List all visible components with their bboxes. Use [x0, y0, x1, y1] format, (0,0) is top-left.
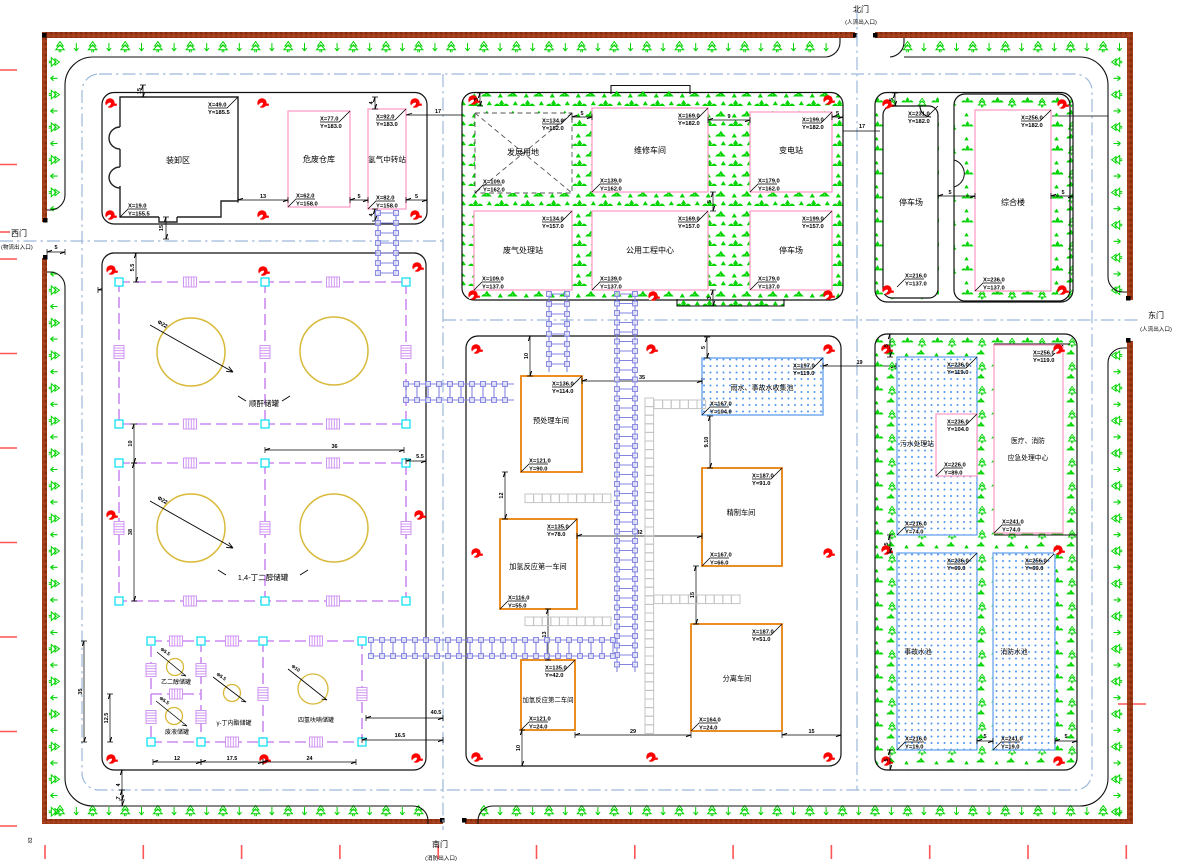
svg-text:36: 36	[331, 444, 337, 450]
semicircle notch on green band	[954, 160, 964, 187]
svg-text:Y=114.0: Y=114.0	[552, 389, 573, 395]
coordinate leader X=135.0/Y=78.0 for hydrogenation 1	[547, 519, 577, 538]
coordinate leader X=236.0/Y=137.0 for office building	[975, 278, 1005, 292]
svg-text:X=197.0: X=197.0	[793, 364, 815, 370]
parking lot 停车场 (block B)	[750, 211, 832, 290]
svg-text:γ-丁内酯储罐: γ-丁内酯储罐	[217, 719, 252, 727]
svg-text:10: 10	[516, 745, 522, 751]
svg-text:停车场: 停车场	[899, 197, 923, 207]
svg-text:13: 13	[260, 194, 266, 200]
fire hydrants block B	[468, 95, 480, 105]
coordinate leader X=179.0/Y=162.0 for substation	[750, 179, 780, 193]
svg-text:加氢反应第二车间: 加氢反应第二车间	[522, 695, 573, 704]
building: pretreatment workshop 预处理车间	[521, 376, 582, 472]
svg-text:5: 5	[707, 200, 713, 203]
perimeter greening: left column (trees rotated, arrows)	[49, 58, 60, 816]
north-south road centreline x=857 (from north gate)	[856, 10, 858, 790]
svg-text:Y=24.0: Y=24.0	[699, 725, 718, 731]
coordinate leader X=241.0/Y=19.0 for fire pool	[993, 737, 1023, 751]
coordinate leader X=92.0/Y=183.0 for hydrogen transfer station	[376, 109, 406, 128]
svg-text:83: 83	[28, 837, 34, 843]
svg-text:Y=74.0: Y=74.0	[905, 529, 924, 535]
svg-text:15: 15	[159, 225, 165, 231]
svg-text:Y=137.0: Y=137.0	[482, 284, 504, 290]
svg-text:Y=66.0: Y=66.0	[710, 560, 729, 566]
svg-text:Y=69.0: Y=69.0	[947, 566, 966, 572]
svg-text:雨水、事故水收集池: 雨水、事故水收集池	[731, 383, 794, 392]
svg-text:5: 5	[357, 194, 360, 200]
green band outline around office building	[954, 94, 1070, 301]
coordinate leader X=134.0/Y=157.0 for waste gas treatment	[542, 211, 572, 230]
svg-text:10: 10	[524, 353, 530, 359]
svg-text:X=121.0: X=121.0	[529, 459, 551, 465]
medical / fire emergency centre 医疗、消防应急处理中心	[994, 345, 1063, 533]
svg-text:3: 3	[474, 98, 480, 101]
svg-text:X=241.0: X=241.0	[1002, 520, 1024, 526]
boundary wall, top (west of north gate)	[42, 32, 855, 38]
coordinate leader X=236.0/Y=104.0 for sewage inner	[947, 414, 977, 433]
bund 1 tanks	[157, 318, 225, 386]
svg-text:分离车间: 分离车间	[723, 674, 752, 683]
svg-text:Y=183.0: Y=183.0	[376, 122, 398, 128]
svg-text:X=187.0: X=187.0	[752, 630, 774, 636]
svg-text:Y=78.0: Y=78.0	[547, 532, 566, 538]
small tank arrows	[156, 652, 327, 726]
svg-text:Y=137.0: Y=137.0	[905, 281, 927, 287]
west road centreline y=241 (from west gate)	[0, 240, 443, 242]
svg-text:17.5: 17.5	[227, 756, 238, 762]
svg-text:Y=119.0: Y=119.0	[1033, 358, 1054, 364]
svg-text:乙二醇储罐: 乙二醇储罐	[161, 678, 191, 686]
small tanks	[167, 659, 184, 676]
svg-text:Y=51.0: Y=51.0	[752, 637, 771, 643]
boundary wall, right (north of east gate)	[1127, 32, 1133, 300]
svg-text:北门: 北门	[853, 4, 869, 14]
svg-text:17: 17	[435, 109, 441, 115]
dimensions block A	[238, 197, 288, 203]
svg-text:Y=74.0: Y=74.0	[1002, 527, 1021, 533]
svg-text:Y=185.5: Y=185.5	[208, 110, 231, 116]
svg-text:Y=104.0: Y=104.0	[710, 409, 732, 415]
building: waste gas treatment 废气处理站	[474, 211, 572, 290]
svg-text:(人流出入口): (人流出入口)	[1140, 325, 1172, 333]
svg-text:Y=19.0: Y=19.0	[1001, 744, 1020, 750]
east road centreline y=320 (to east gate)	[443, 319, 1140, 321]
pipe rack V2 (utility block to process block)	[547, 292, 570, 372]
svg-text:应急处理中心: 应急处理中心	[1008, 453, 1049, 462]
coordinate leader X=216.0/Y=137.0 for parking strip	[897, 274, 927, 288]
fire hydrants block A	[105, 98, 117, 108]
svg-text:停车场: 停车场	[779, 245, 803, 255]
svg-text:Y=89.0: Y=89.0	[944, 470, 963, 476]
coordinate leader X=169.0/Y=157.0 for utility centre	[678, 211, 708, 230]
cable trench G3 west lower	[525, 617, 611, 626]
svg-text:X=135.0: X=135.0	[545, 666, 567, 672]
svg-text:12: 12	[174, 756, 180, 762]
svg-text:Y=162.0: Y=162.0	[758, 186, 780, 192]
building: hydrogen transfer station 氢气中转站	[368, 109, 406, 209]
svg-text:X=236.0: X=236.0	[947, 363, 969, 369]
block A kerb (loading / warehouses)	[102, 93, 427, 225]
coordinate leader X=236.0/Y=119.0 for sewage pool	[947, 357, 977, 376]
svg-text:X=164.0: X=164.0	[699, 718, 721, 724]
svg-text:Y=55.0: Y=55.0	[508, 603, 527, 609]
svg-text:Y=42.0: Y=42.0	[545, 673, 564, 679]
boundary wall, bottom (east of south gate)	[465, 819, 1133, 824]
pipe rack R2 (bund 3 to process block)	[369, 638, 616, 659]
coordinate leader X=199.0/Y=182.0 for substation	[802, 112, 832, 131]
coordinate leader X=187.0/Y=51.0 for separation	[752, 624, 782, 643]
coordinate leader X=241.0/Y=74.0 for medical centre	[994, 520, 1024, 534]
svg-text:38: 38	[128, 529, 134, 535]
tank diameter arrow	[150, 325, 233, 372]
perimeter greening: bottom tree/arrow row	[56, 806, 1122, 817]
svg-text:5: 5	[884, 758, 890, 761]
svg-text:Y=155.5: Y=155.5	[128, 211, 151, 217]
svg-text:X=256.0: X=256.0	[1025, 559, 1047, 565]
svg-text:公用工程中心: 公用工程中心	[626, 245, 674, 255]
svg-text:维修车间: 维修车间	[634, 145, 666, 155]
coordinate leader X=164.0/Y=24.0 for separation	[691, 718, 721, 732]
svg-text:19: 19	[856, 360, 862, 366]
west gate label 西门(物流出入口)	[0, 231, 10, 233]
office building 综合楼	[975, 110, 1051, 291]
centre block dimensions	[582, 378, 702, 384]
svg-text:Y=69.0: Y=69.0	[1025, 566, 1044, 572]
boundary wall, top (east of north gate)	[875, 32, 1132, 38]
process block kerb	[466, 336, 841, 766]
coordinate leader X=187.0/Y=91.0 for refining	[752, 468, 782, 487]
building: separation workshop 分离车间	[691, 624, 782, 731]
svg-text:消防水池: 消防水池	[1000, 647, 1027, 656]
long arrow west from hydrogen station label	[406, 113, 462, 115]
svg-text:X=136.0: X=136.0	[552, 382, 574, 388]
boundary wall, bottom (west of south gate)	[45, 819, 443, 824]
svg-text:Y=157.0: Y=157.0	[542, 224, 564, 230]
building: hydrogenation reaction workshop no.1 加氢反应第一车间	[500, 519, 577, 609]
building: refining workshop 精制车间	[702, 468, 782, 566]
svg-text:X=139.0: X=139.0	[600, 277, 622, 283]
svg-text:17: 17	[859, 124, 865, 130]
coordinate leader X=199.0/Y=157.0 for parking lot B	[802, 211, 832, 230]
coordinate leader X=19.0/Y=155.5 for loading area	[120, 204, 151, 218]
svg-text:X=169.0: X=169.0	[678, 114, 700, 120]
coordinate leader X=135.0/Y=42.0 for hydrogenation 2	[545, 660, 575, 679]
svg-text:Y=182.0: Y=182.0	[678, 121, 700, 127]
svg-text:35: 35	[639, 375, 645, 381]
coordinate leader X=231.0/Y=182.0 for parking strip	[908, 106, 938, 125]
svg-text:5: 5	[1064, 734, 1067, 740]
svg-text:X=231.0: X=231.0	[908, 112, 930, 118]
svg-text:废气处理站: 废气处理站	[503, 245, 543, 255]
svg-text:7: 7	[116, 796, 122, 799]
medical zone boundary lines	[994, 344, 1070, 407]
svg-text:X=236.0: X=236.0	[947, 559, 969, 565]
red tick crossing right wall	[1118, 703, 1146, 705]
svg-text:Y=137.0: Y=137.0	[600, 284, 622, 290]
tank farm dimensions	[133, 253, 139, 282]
svg-text:5: 5	[884, 344, 890, 347]
boundary wall, left (north of west gate)	[42, 32, 47, 222]
svg-text:35: 35	[78, 688, 84, 694]
road dimensions west of centre block	[366, 715, 443, 721]
svg-text:5: 5	[948, 190, 951, 196]
svg-text:Y=91.0: Y=91.0	[752, 481, 771, 487]
coordinate leader X=236.0/Y=69.0 for accident pool	[947, 553, 977, 572]
svg-text:5: 5	[836, 111, 839, 117]
bund 2 (1,4-butanediol tanks)	[119, 463, 406, 601]
boundary wall, left (south of west gate)	[42, 258, 47, 824]
ring road centreline (dash-dot)	[82, 74, 1092, 790]
svg-text:X=19.0: X=19.0	[128, 204, 147, 210]
coordinate leader X=49.0/Y=185.5 for loading area	[208, 97, 238, 116]
svg-text:变电站: 变电站	[779, 145, 803, 155]
svg-text:12.5: 12.5	[104, 713, 110, 724]
svg-text:加氢反应第一车间: 加氢反应第一车间	[509, 562, 567, 571]
svg-text:X=216.0: X=216.0	[905, 522, 927, 528]
pipe rack V1 (hydrogen station to tank farm)	[376, 211, 399, 276]
svg-text:X=216.0: X=216.0	[905, 274, 927, 280]
svg-text:西门: 西门	[11, 228, 27, 238]
bund 1 corner markers	[115, 278, 123, 286]
block B kerb notches	[611, 86, 690, 95]
coordinate leader X=256.0/Y=119.0 for medical centre	[1033, 345, 1063, 364]
svg-text:X=121.0: X=121.0	[529, 717, 551, 723]
bund 3 (small tanks)	[151, 641, 362, 742]
svg-text:16.5: 16.5	[395, 733, 406, 739]
svg-text:氢气中转站: 氢气中转站	[368, 154, 406, 164]
coordinate leader X=169.0/Y=182.0 for maintenance workshop	[678, 108, 708, 127]
coordinate leader X=136.0/Y=114.0 for pretreatment	[552, 376, 582, 395]
svg-text:Y=119.0: Y=119.0	[947, 370, 968, 376]
coordinate leader X=256.0/Y=182.0 for office building	[1021, 110, 1051, 129]
svg-text:顺酐储罐: 顺酐储罐	[249, 398, 279, 408]
bund 1 hatched gates	[184, 277, 197, 287]
building: utility engineering centre 公用工程中心	[592, 211, 708, 290]
svg-text:Y=182.0: Y=182.0	[908, 119, 930, 125]
svg-text:X=134.0: X=134.0	[542, 217, 564, 223]
svg-text:预处理车间: 预处理车间	[533, 416, 569, 425]
dimensions block B	[572, 114, 592, 120]
perimeter greening: right column (trees rotated, arrows)	[1112, 58, 1123, 816]
svg-text:Y=162.0: Y=162.0	[600, 186, 622, 192]
svg-text:X=62.0: X=62.0	[296, 194, 315, 200]
svg-text:废液储罐: 废液储罐	[165, 728, 189, 736]
svg-text:13: 13	[542, 631, 548, 637]
building: maintenance workshop 维修车间	[592, 108, 708, 192]
coordinate leader X=62.0/Y=158.0 for hazardous waste warehouse	[288, 194, 318, 208]
coordinate leader X=82.0/Y=158.0 for hydrogen transfer station	[368, 196, 398, 210]
bund 2 label 1,4-丁二醇储罐	[218, 570, 308, 575]
svg-text:X=241.0: X=241.0	[1001, 737, 1023, 743]
svg-text:发展用地: 发展用地	[507, 147, 539, 157]
pipe rack R1 (tank farm to process block)	[404, 382, 514, 403]
svg-text:Y=104.0: Y=104.0	[947, 427, 969, 433]
coordinate leader X=226.0/Y=89.0 for sewage inner	[936, 463, 966, 477]
svg-text:精制车间: 精制车间	[727, 508, 756, 517]
svg-text:污水处理站: 污水处理站	[900, 439, 934, 448]
building: hydrogenation reaction workshop no.2 加氢反应第二车间	[521, 660, 575, 730]
coordinate leader X=179.0/Y=137.0 for parking lot B	[750, 277, 780, 291]
bund 1 (maleic anhydride tanks 顺酐储罐)	[119, 282, 406, 424]
svg-text:Y=162.0: Y=162.0	[483, 187, 505, 193]
svg-text:(物流出入口): (物流出入口)	[1, 243, 33, 251]
building: loading area 装卸区 (black outline with dock arcs)	[120, 97, 238, 217]
svg-text:X=139.0: X=139.0	[600, 179, 622, 185]
arrow dimension to east block	[843, 116, 1108, 131]
svg-text:40.5: 40.5	[431, 710, 442, 716]
block C kerb (parking / office)	[875, 93, 1073, 303]
svg-text:X=179.0: X=179.0	[758, 277, 780, 283]
svg-text:(人流出入口): (人流出入口)	[845, 18, 877, 26]
svg-text:X=109.0: X=109.0	[482, 277, 504, 283]
west gate verge width dimension	[47, 249, 65, 255]
coordinate leader X=216.0/Y=74.0 for sewage pool	[897, 522, 927, 536]
svg-text:Y=137.0: Y=137.0	[758, 284, 780, 290]
svg-text:X=109.0: X=109.0	[483, 180, 505, 186]
svg-text:X=199.0: X=199.0	[802, 118, 824, 124]
cable trench G4 east mid	[654, 595, 740, 604]
block B kerb (utility area)	[462, 93, 843, 301]
coordinate leader X=167.0/Y=66.0 for refining	[702, 553, 732, 567]
svg-text:5: 5	[54, 245, 57, 251]
svg-text:3: 3	[707, 296, 713, 299]
parking strip 停车场 (block C)	[883, 106, 938, 298]
svg-text:24: 24	[306, 756, 313, 762]
svg-text:综合楼: 综合楼	[1001, 197, 1025, 207]
svg-text:事故水池: 事故水池	[904, 647, 931, 656]
building: hazardous waste warehouse 危废仓库	[288, 111, 350, 207]
svg-text:X=169.0: X=169.0	[678, 217, 700, 223]
svg-text:15: 15	[808, 729, 814, 735]
svg-text:Y=158.0: Y=158.0	[296, 201, 318, 207]
fire hydrants block C	[882, 99, 894, 109]
svg-text:南门: 南门	[432, 839, 448, 849]
svg-text:X=134.0: X=134.0	[542, 119, 564, 125]
svg-text:X=167.0: X=167.0	[710, 402, 732, 408]
svg-text:Y=19.0: Y=19.0	[905, 744, 924, 750]
svg-text:Y=119.0: Y=119.0	[793, 371, 814, 377]
rainwater/accident water collecting pool 雨水、事故水收集池	[702, 358, 823, 415]
svg-text:危废仓库: 危废仓库	[303, 154, 335, 164]
svg-text:Y=137.0: Y=137.0	[983, 285, 1005, 291]
red survey grid ticks, bottom margin	[45, 845, 1126, 859]
coordinate leader X=167.0/Y=104.0 for rain pool	[702, 402, 732, 416]
coordinate leader X=139.0/Y=137.0 for utility centre	[592, 277, 622, 291]
boundary wall, right (south of east gate)	[1127, 341, 1133, 824]
svg-text:Y=182.0: Y=182.0	[802, 125, 824, 131]
red survey grid ticks, left margin	[0, 70, 17, 826]
coordinate leader X=116.0/Y=55.0 for hydrogenation 1	[500, 596, 529, 610]
svg-text:Y=157.0: Y=157.0	[802, 224, 824, 230]
accident water pool 事故水池	[897, 553, 977, 750]
white road gap inside block C	[939, 94, 974, 300]
south-east block kerb	[875, 334, 1077, 770]
svg-text:装卸区: 装卸区	[166, 155, 190, 165]
svg-text:5: 5	[580, 111, 583, 117]
svg-text:5.5: 5.5	[130, 264, 136, 272]
inner pink structure of sewage station	[936, 414, 977, 476]
tank farm hydrants	[106, 265, 118, 275]
cable trench G1 main vertical	[645, 398, 654, 733]
pipe rack V3 (main north-south rack)	[615, 292, 638, 672]
svg-text:X=77.0: X=77.0	[320, 117, 339, 123]
svg-text:1,4-丁二醇储罐: 1,4-丁二醇储罐	[238, 572, 289, 582]
svg-text:Y=158.0: Y=158.0	[376, 203, 398, 209]
svg-text:5.5: 5.5	[416, 454, 424, 460]
svg-text:X=199.0: X=199.0	[802, 217, 824, 223]
fire water pool 消防水池	[993, 553, 1055, 750]
svg-text:X=49.0: X=49.0	[208, 103, 227, 109]
svg-text:东门: 东门	[1148, 310, 1164, 320]
coordinate leader X=216.0/Y=19.0 for accident pool	[897, 737, 927, 751]
svg-text:29: 29	[630, 729, 636, 735]
svg-text:X=116.0: X=116.0	[508, 596, 529, 602]
svg-text:9: 9	[727, 114, 730, 120]
svg-text:5: 5	[889, 98, 895, 101]
reserved development land 发展用地 (dashed, X cross)	[475, 113, 572, 193]
cable trench G5 to rain pool	[654, 400, 706, 409]
bund 1 label 顺酐储罐	[238, 396, 290, 401]
coordinate leader X=121.0/Y=90.0 for pretreatment	[521, 459, 551, 473]
sewage treatment pool 污水处理站	[897, 357, 977, 535]
coordinate leader X=109.0/Y=162.0 for development land	[475, 180, 505, 194]
svg-text:Y=182.0: Y=182.0	[542, 126, 564, 132]
svg-text:10: 10	[128, 440, 134, 446]
tank farm block kerb	[102, 253, 426, 770]
svg-text:5: 5	[415, 194, 418, 200]
svg-text:Y=24.0: Y=24.0	[529, 724, 548, 730]
svg-text:医疗、消防: 医疗、消防	[1011, 436, 1045, 445]
svg-text:X=256.0: X=256.0	[1033, 351, 1055, 357]
svg-text:X=236.0: X=236.0	[983, 278, 1005, 284]
svg-text:(消防出入口): (消防出入口)	[425, 854, 457, 862]
coordinate leader X=109.0/Y=137.0 for waste gas treatment	[474, 277, 504, 291]
coordinate leader X=139.0/Y=162.0 for maintenance workshop	[592, 179, 622, 193]
cable trench G2 west upper	[525, 494, 611, 503]
svg-text:9.10: 9.10	[704, 437, 710, 448]
svg-text:Y=90.0: Y=90.0	[529, 466, 548, 472]
svg-text:X=236.0: X=236.0	[947, 420, 969, 426]
svg-text:15: 15	[137, 88, 143, 94]
svg-text:X=226.0: X=226.0	[944, 463, 966, 469]
svg-text:5: 5	[1061, 190, 1064, 196]
svg-text:Y=157.0: Y=157.0	[678, 224, 700, 230]
coordinate leader X=77.0/Y=183.0 for hazardous waste warehouse	[320, 111, 350, 130]
svg-text:X=82.0: X=82.0	[376, 196, 395, 202]
svg-text:5: 5	[701, 346, 707, 349]
coordinate leader X=197.0/Y=119.0 for rain pool	[793, 358, 823, 377]
svg-text:X=167.0: X=167.0	[710, 553, 732, 559]
svg-text:5: 5	[983, 734, 986, 740]
svg-text:X=256.0: X=256.0	[1021, 116, 1043, 122]
svg-text:5: 5	[884, 542, 890, 545]
svg-text:12: 12	[499, 492, 505, 498]
svg-text:X=179.0: X=179.0	[758, 179, 780, 185]
svg-text:Y=182.0: Y=182.0	[1021, 123, 1043, 129]
svg-text:X=187.0: X=187.0	[752, 474, 774, 480]
coordinate leader X=134.0/Y=182.0 for development land	[542, 113, 572, 132]
fire hydrants centre block	[471, 344, 483, 354]
north-south road centreline x=443	[442, 74, 444, 830]
svg-text:X=216.0: X=216.0	[905, 737, 927, 743]
fire hydrants south-east block	[881, 344, 893, 354]
building: substation 变电站	[750, 112, 832, 192]
coordinate leader X=256.0/Y=69.0 for fire pool	[1025, 553, 1055, 572]
svg-text:Y=183.0: Y=183.0	[320, 124, 342, 130]
svg-text:X=92.0: X=92.0	[376, 115, 395, 121]
coordinate leader X=121.0/Y=24.0 for hydrogenation 2	[521, 717, 551, 731]
